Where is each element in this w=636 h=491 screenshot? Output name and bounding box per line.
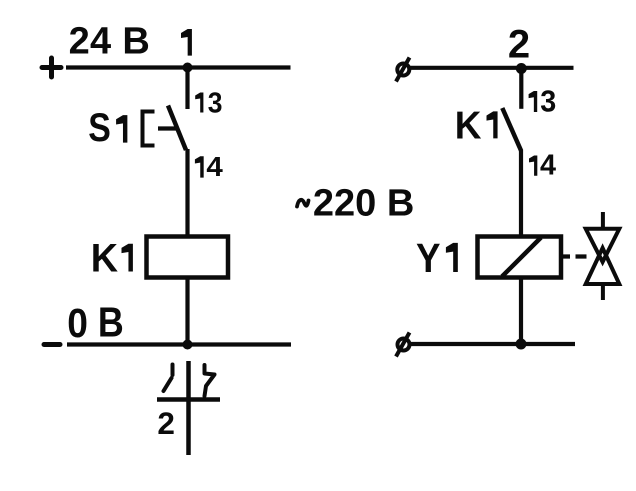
tick mark right <box>205 365 215 396</box>
dashed mechanical link <box>561 254 587 258</box>
svg-text:K: K <box>91 237 118 281</box>
wire top-right rail <box>410 66 574 70</box>
wire S1 to coil K1 <box>185 149 189 237</box>
minus terminal <box>44 342 60 347</box>
relay contact K1 blade <box>502 108 521 151</box>
wire bottom-right rail <box>410 342 575 346</box>
node 1 label <box>181 29 192 56</box>
phase terminal top <box>396 58 410 82</box>
wire coil K1 to 0V rail <box>185 278 189 345</box>
valve symbol <box>586 212 620 300</box>
wire cable stub below 0V rail <box>186 361 191 455</box>
svg-text:Y: Y <box>416 235 441 281</box>
wire top-left rail <box>66 65 291 69</box>
wire contact to coil Y1 <box>519 150 523 237</box>
junction on 0V rail <box>183 340 193 350</box>
svg-text:220 В: 220 В <box>313 182 414 224</box>
relay coil K1 <box>147 237 229 278</box>
svg-text:0: 0 <box>67 300 88 346</box>
wire bottom-left rail <box>67 342 291 346</box>
svg-text:2: 2 <box>508 22 530 66</box>
crossbar terminal strip <box>157 397 220 402</box>
junction node 1 <box>183 63 193 73</box>
pushbutton S1 contact blade <box>168 106 186 151</box>
svg-text:4: 4 <box>540 150 556 182</box>
svg-text:24 В: 24 В <box>69 21 150 63</box>
phase terminal bottom <box>396 333 410 357</box>
tick mark left <box>164 365 173 392</box>
svg-text:K: K <box>455 104 482 147</box>
junction node 2 <box>516 63 527 74</box>
wire coil Y1 to bottom rail <box>519 278 523 345</box>
wire node 1 to S1 pin 13 <box>185 68 189 110</box>
solenoid coil Y1 <box>478 237 562 278</box>
svg-text:3: 3 <box>540 84 556 118</box>
junction bottom-right <box>516 339 527 350</box>
pushbutton S1 link <box>158 126 176 130</box>
wire node 2 to contact pin 13 <box>519 68 523 109</box>
plus terminal <box>42 58 61 77</box>
svg-text:В: В <box>98 299 124 346</box>
pushbutton S1 actuator <box>143 112 155 146</box>
svg-text:3: 3 <box>208 87 223 119</box>
svg-text:S: S <box>88 106 111 150</box>
svg-text:2: 2 <box>157 405 175 441</box>
svg-text:4: 4 <box>206 151 223 182</box>
label ~220 В <box>297 200 309 207</box>
